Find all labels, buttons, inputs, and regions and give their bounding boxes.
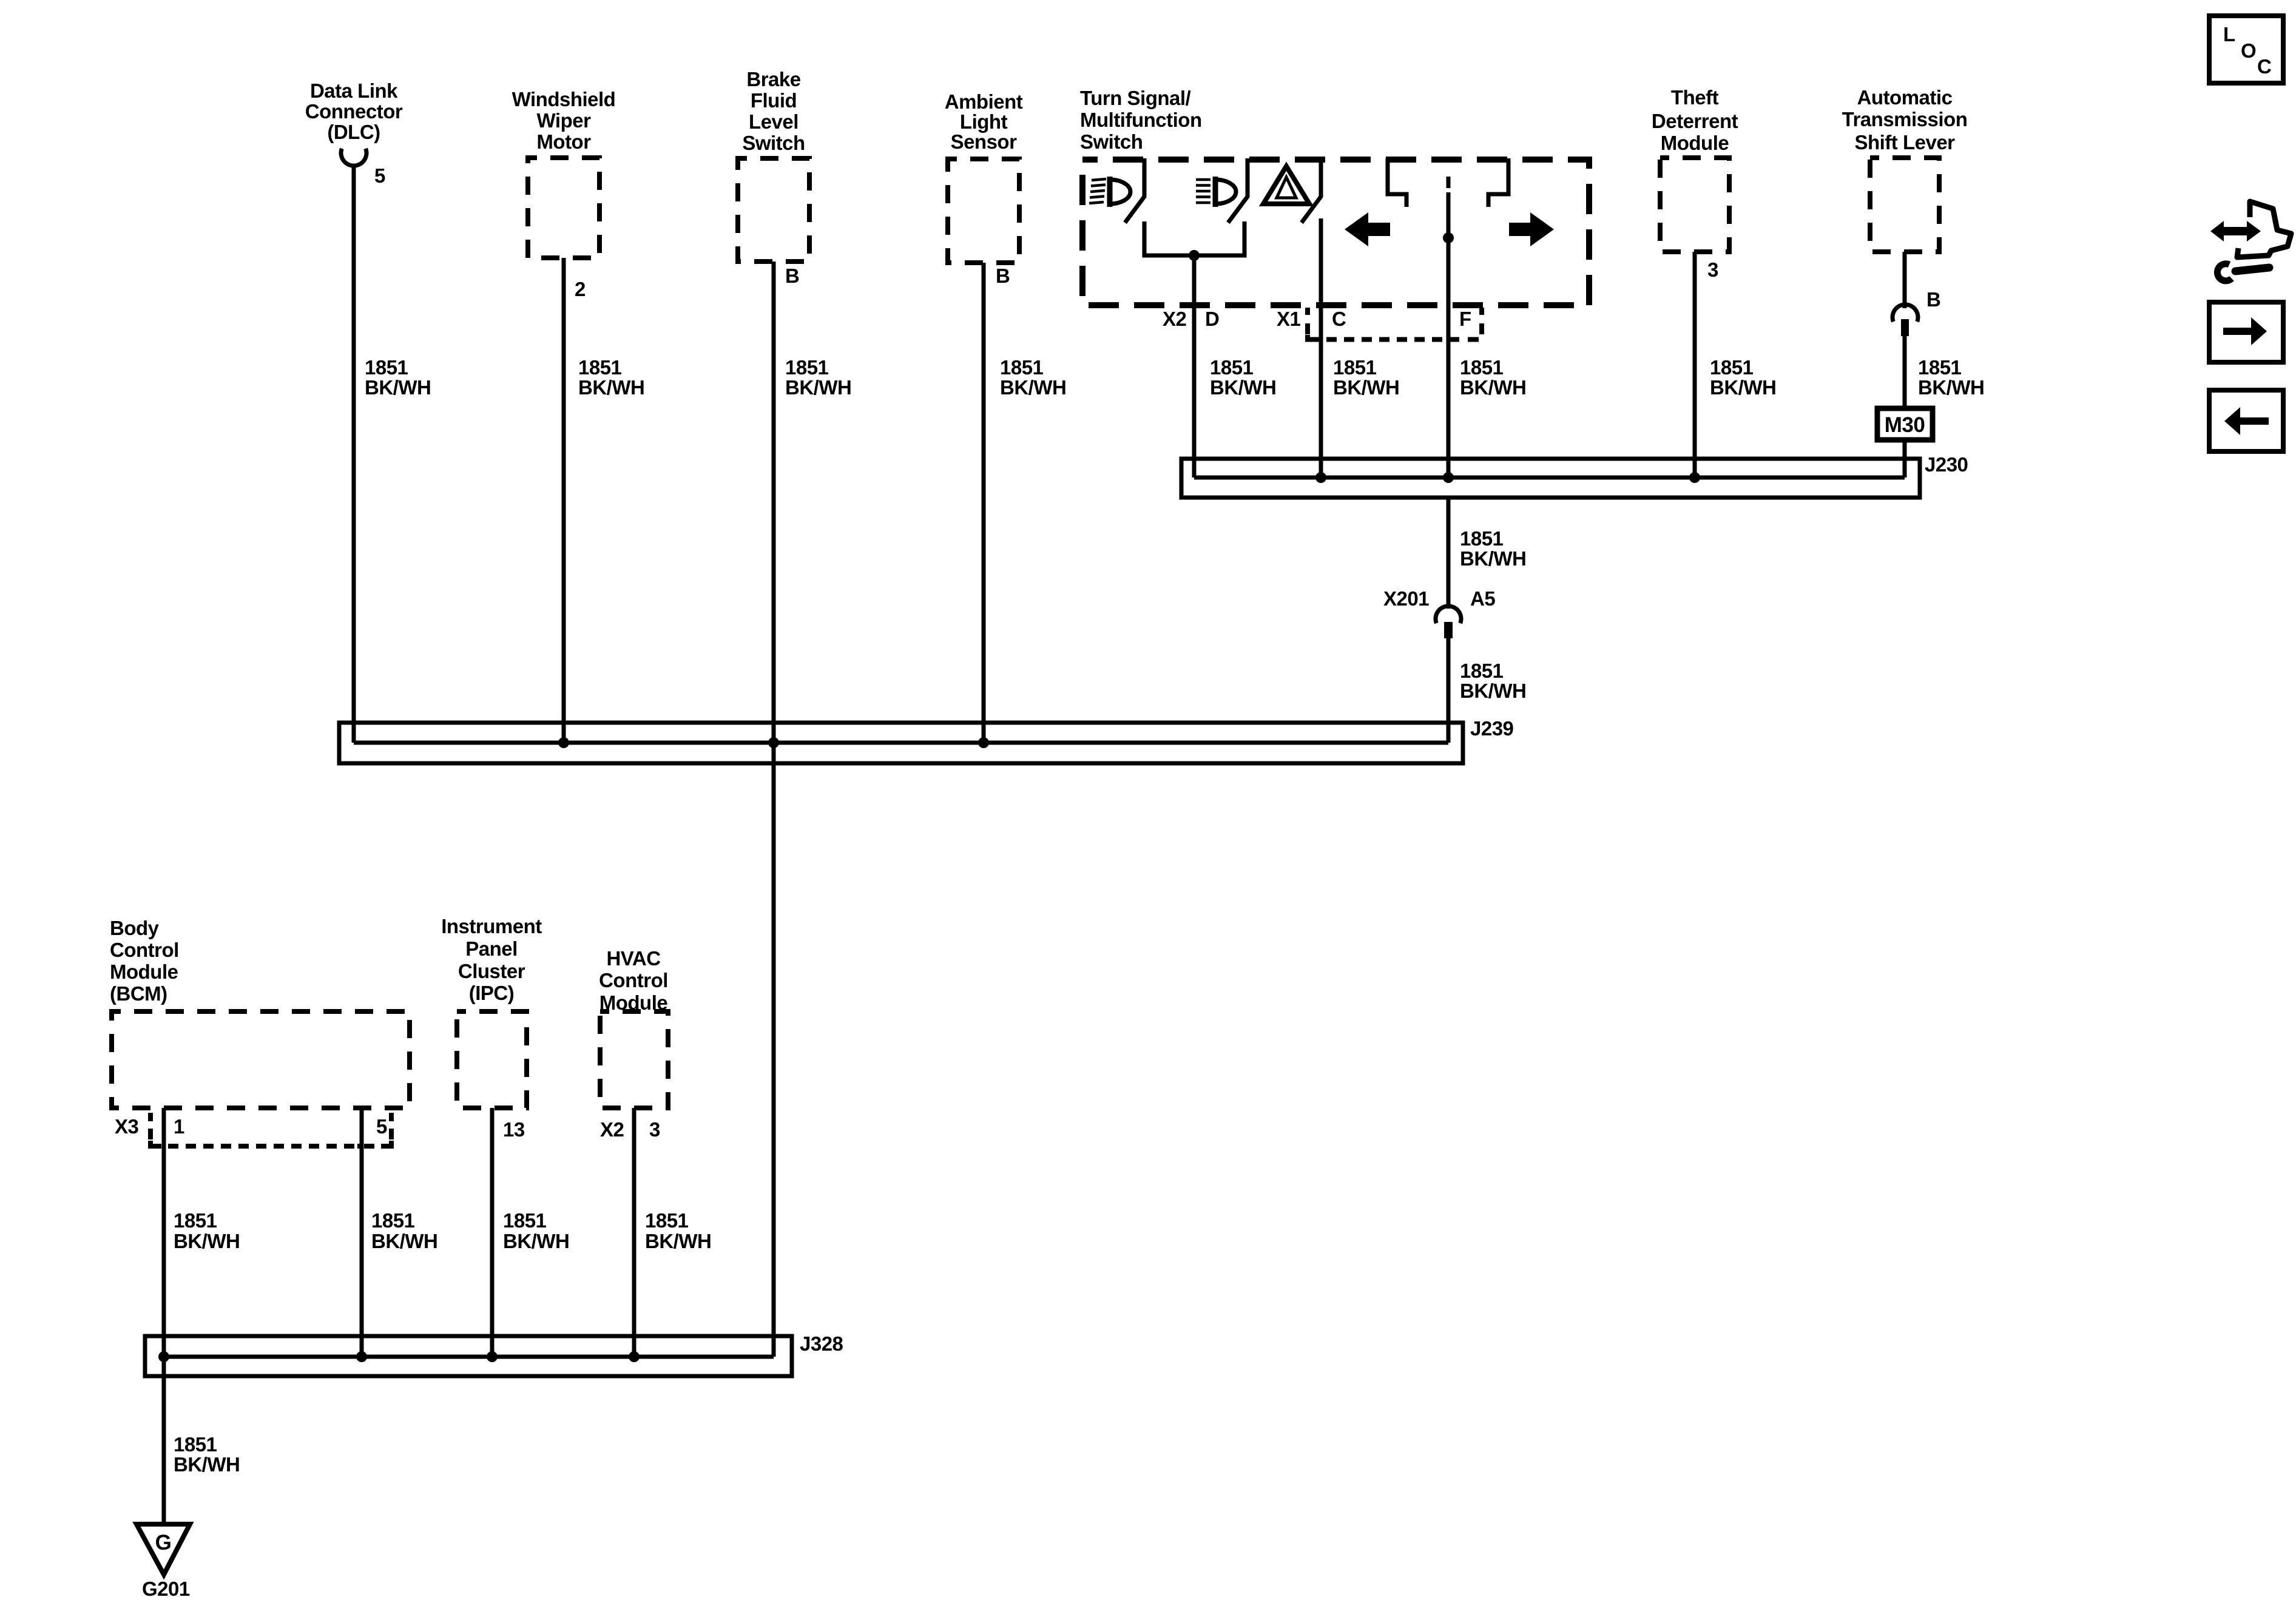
svg-text:X2: X2 — [600, 1118, 624, 1141]
svg-text:Sensor: Sensor — [951, 130, 1018, 153]
svg-text:Instrument: Instrument — [441, 915, 542, 937]
svg-text:G201: G201 — [142, 1578, 190, 1600]
svg-text:Level: Level — [749, 110, 799, 133]
svg-text:Transmission: Transmission — [1842, 108, 1968, 130]
svg-text:Module: Module — [1661, 132, 1729, 154]
svg-text:Turn Signal/: Turn Signal/ — [1080, 87, 1191, 109]
svg-text:Light: Light — [960, 110, 1008, 133]
svg-text:Cluster: Cluster — [458, 960, 525, 982]
svg-text:1851: 1851 — [1460, 356, 1504, 379]
svg-text:BK/WH: BK/WH — [1000, 376, 1066, 399]
svg-text:1851: 1851 — [365, 356, 408, 379]
svg-text:J230: J230 — [1925, 453, 1968, 476]
svg-text:(BCM): (BCM) — [110, 982, 167, 1005]
svg-text:Control: Control — [599, 969, 668, 991]
svg-text:Ambient: Ambient — [945, 90, 1023, 113]
svg-text:1851: 1851 — [1460, 660, 1504, 682]
svg-text:D: D — [1205, 308, 1219, 330]
svg-text:J239: J239 — [1470, 717, 1514, 740]
svg-text:1851: 1851 — [174, 1209, 217, 1232]
svg-text:1851: 1851 — [371, 1209, 415, 1232]
svg-text:B: B — [785, 265, 799, 287]
svg-text:Fluid: Fluid — [751, 89, 797, 112]
svg-text:5: 5 — [374, 164, 385, 187]
svg-text:Theft: Theft — [1671, 86, 1719, 109]
svg-text:1851: 1851 — [174, 1433, 217, 1456]
svg-text:BK/WH: BK/WH — [578, 376, 644, 399]
svg-text:A5: A5 — [1470, 587, 1495, 610]
svg-text:BK/WH: BK/WH — [1210, 376, 1276, 399]
svg-text:F: F — [1459, 308, 1471, 330]
svg-text:BK/WH: BK/WH — [1333, 376, 1399, 399]
svg-text:1851: 1851 — [785, 356, 829, 379]
svg-text:C: C — [2257, 55, 2271, 78]
svg-text:1851: 1851 — [1460, 527, 1504, 550]
svg-text:Deterrent: Deterrent — [1652, 110, 1738, 132]
svg-text:1851: 1851 — [1000, 356, 1044, 379]
svg-text:Brake: Brake — [746, 68, 800, 90]
svg-text:BK/WH: BK/WH — [785, 376, 851, 399]
svg-text:3: 3 — [1707, 258, 1718, 281]
svg-text:Shift Lever: Shift Lever — [1854, 131, 1955, 154]
svg-text:BK/WH: BK/WH — [174, 1453, 240, 1476]
svg-text:BK/WH: BK/WH — [1460, 376, 1526, 399]
svg-text:Switch: Switch — [1080, 130, 1143, 153]
svg-text:HVAC: HVAC — [606, 947, 660, 970]
svg-text:BK/WH: BK/WH — [365, 376, 431, 399]
svg-text:1851: 1851 — [578, 356, 622, 379]
svg-text:B: B — [1926, 288, 1940, 311]
svg-text:L: L — [2223, 23, 2235, 46]
svg-text:X3: X3 — [115, 1115, 139, 1138]
svg-text:1851: 1851 — [1710, 356, 1754, 379]
svg-text:BK/WH: BK/WH — [371, 1230, 437, 1252]
svg-text:Wiper: Wiper — [537, 109, 592, 132]
svg-text:Connector: Connector — [305, 100, 403, 123]
svg-text:3: 3 — [649, 1118, 660, 1141]
svg-text:BK/WH: BK/WH — [503, 1230, 569, 1252]
svg-text:2: 2 — [575, 278, 586, 300]
svg-text:B: B — [996, 265, 1010, 287]
svg-text:X2: X2 — [1163, 308, 1187, 330]
svg-text:13: 13 — [503, 1118, 525, 1141]
svg-text:BK/WH: BK/WH — [1460, 680, 1526, 702]
svg-text:Body: Body — [110, 917, 160, 939]
svg-text:1851: 1851 — [645, 1209, 689, 1232]
svg-text:BK/WH: BK/WH — [1460, 547, 1526, 570]
svg-text:1851: 1851 — [1210, 356, 1254, 379]
svg-text:Module: Module — [599, 991, 668, 1014]
svg-text:BK/WH: BK/WH — [645, 1230, 711, 1252]
svg-text:Motor: Motor — [536, 130, 591, 153]
svg-text:Windshield: Windshield — [512, 88, 616, 110]
svg-text:M30: M30 — [1885, 413, 1925, 437]
svg-text:1: 1 — [174, 1115, 184, 1138]
svg-text:X1: X1 — [1277, 308, 1301, 330]
svg-text:BK/WH: BK/WH — [1710, 376, 1776, 399]
svg-text:BK/WH: BK/WH — [174, 1230, 240, 1252]
svg-text:Control: Control — [110, 939, 179, 961]
svg-text:Data Link: Data Link — [310, 79, 398, 102]
svg-text:Automatic: Automatic — [1857, 86, 1953, 109]
svg-text:Switch: Switch — [742, 132, 805, 154]
svg-text:Module: Module — [110, 960, 178, 983]
svg-text:J328: J328 — [800, 1332, 843, 1355]
svg-text:(DLC): (DLC) — [327, 121, 380, 143]
svg-text:1851: 1851 — [1918, 356, 1962, 379]
svg-text:C: C — [1332, 308, 1346, 330]
svg-text:X201: X201 — [1383, 587, 1429, 610]
svg-text:BK/WH: BK/WH — [1918, 376, 1984, 399]
svg-text:G: G — [155, 1531, 172, 1555]
svg-text:5: 5 — [376, 1115, 387, 1138]
svg-text:1851: 1851 — [1333, 356, 1377, 379]
svg-text:Multifunction: Multifunction — [1080, 109, 1202, 131]
svg-text:O: O — [2241, 39, 2256, 62]
svg-text:(IPC): (IPC) — [469, 982, 515, 1004]
svg-text:1851: 1851 — [503, 1209, 547, 1232]
svg-text:Panel: Panel — [465, 937, 518, 960]
